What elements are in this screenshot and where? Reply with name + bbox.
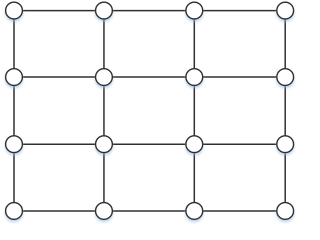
wire col1 (13, 11, 15, 211)
node R2C2 (96, 69, 113, 86)
node R4C1 (6, 203, 23, 220)
node R1C1 (6, 2, 23, 19)
node R4C4 (277, 203, 294, 220)
node R1C3 (186, 2, 203, 19)
node R2C4 (277, 69, 294, 86)
node R3C3 (186, 136, 203, 153)
wire row3 (14, 143, 285, 145)
wire col2 (103, 11, 105, 211)
node R3C2 (96, 136, 113, 153)
node R4C3 (186, 203, 203, 220)
wire col3 (193, 11, 195, 211)
node R4C2 (96, 203, 113, 220)
node R1C2 (96, 2, 113, 19)
wire row1 (14, 10, 285, 12)
node R3C4 (277, 136, 294, 153)
wire col4 (284, 11, 286, 211)
node R1C4 (277, 2, 294, 19)
node R3C1 (6, 136, 23, 153)
wire row2 (14, 76, 285, 78)
node R2C1 (6, 69, 23, 86)
node R2C3 (186, 69, 203, 86)
wire row4 (14, 210, 285, 212)
